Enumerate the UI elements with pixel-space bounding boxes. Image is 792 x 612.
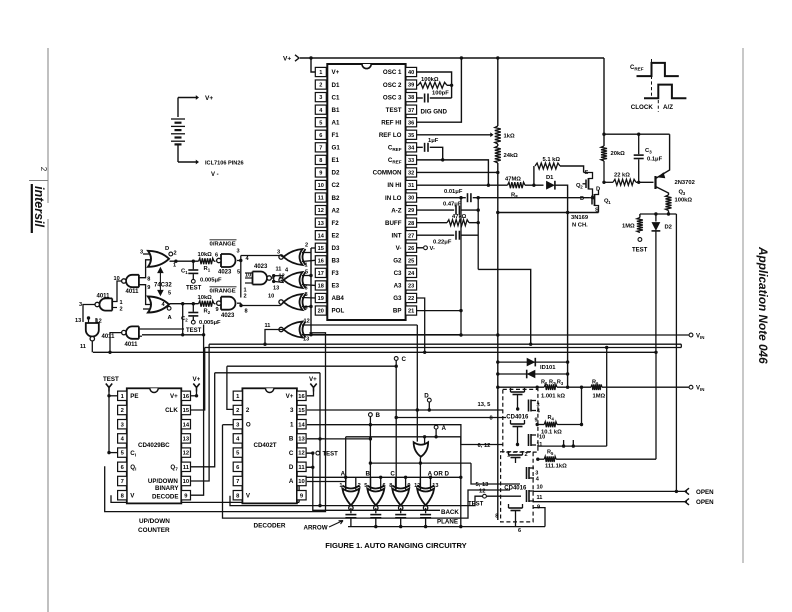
svg-text:CREF: CREF <box>630 65 644 72</box>
svg-text:6: 6 <box>319 133 322 139</box>
svg-text:19: 19 <box>318 296 324 302</box>
svg-text:29: 29 <box>408 208 414 214</box>
svg-text:11: 11 <box>537 442 543 448</box>
svg-text:E3: E3 <box>332 283 340 290</box>
svg-text:0/RANGE: 0/RANGE <box>210 289 236 295</box>
svg-text:10kΩ: 10kΩ <box>198 252 213 258</box>
svg-text:F3: F3 <box>332 270 340 277</box>
svg-text:R1: R1 <box>204 266 211 273</box>
svg-text:D: D <box>424 392 429 399</box>
svg-text:AB4: AB4 <box>332 295 345 302</box>
svg-text:5: 5 <box>319 120 322 126</box>
svg-text:16: 16 <box>183 394 190 400</box>
svg-text:13: 13 <box>432 483 438 489</box>
svg-text:0.1μF: 0.1μF <box>647 157 663 163</box>
svg-text:8: 8 <box>490 416 493 422</box>
svg-text:PLANE: PLANE <box>437 519 458 526</box>
svg-text:23: 23 <box>408 284 414 290</box>
svg-text:9: 9 <box>216 307 219 313</box>
svg-text:10: 10 <box>539 435 545 441</box>
svg-text:3: 3 <box>79 302 82 308</box>
svg-text:E1: E1 <box>332 157 340 164</box>
svg-text:BACK: BACK <box>441 509 459 516</box>
svg-text:5: 5 <box>364 483 367 489</box>
svg-text:2: 2 <box>246 407 250 414</box>
svg-text:1: 1 <box>507 453 510 459</box>
svg-text:39: 39 <box>408 83 414 89</box>
svg-text:12: 12 <box>183 451 189 457</box>
svg-text:D1: D1 <box>332 82 340 89</box>
svg-text:COUNTER: COUNTER <box>138 527 170 534</box>
svg-text:2: 2 <box>319 83 322 89</box>
svg-text:CD4016: CD4016 <box>504 485 527 491</box>
svg-text:0.01μF: 0.01μF <box>444 189 463 195</box>
svg-text:10: 10 <box>268 294 274 300</box>
svg-text:TEST: TEST <box>186 328 202 334</box>
svg-text:B: B <box>289 436 294 443</box>
svg-text:11: 11 <box>183 465 190 471</box>
svg-text:1kΩ: 1kΩ <box>504 134 515 140</box>
svg-text:D2: D2 <box>665 225 672 231</box>
svg-text:TEST: TEST <box>186 286 202 292</box>
svg-text:3: 3 <box>140 250 143 256</box>
svg-text:COMMON: COMMON <box>373 170 402 177</box>
svg-text:8: 8 <box>319 158 322 164</box>
svg-text:25: 25 <box>408 258 414 264</box>
svg-text:4011: 4011 <box>97 294 111 300</box>
svg-text:15: 15 <box>298 408 305 414</box>
svg-text:C: C <box>390 471 395 478</box>
svg-text:V-: V- <box>430 246 436 252</box>
svg-text:DECODE: DECODE <box>152 494 178 501</box>
svg-text:111.1kΩ: 111.1kΩ <box>545 464 567 470</box>
svg-text:12: 12 <box>298 451 304 457</box>
svg-text:3N169: 3N169 <box>571 215 589 221</box>
svg-text:9: 9 <box>535 418 538 424</box>
svg-text:V+: V+ <box>332 69 340 76</box>
svg-text:12: 12 <box>479 488 485 494</box>
svg-text:4011: 4011 <box>125 342 139 348</box>
svg-text:8: 8 <box>147 277 150 283</box>
svg-text:E2: E2 <box>332 232 340 239</box>
svg-text:12: 12 <box>318 208 324 214</box>
svg-text:15: 15 <box>318 246 324 252</box>
svg-text:0/RANGE: 0/RANGE <box>210 242 236 248</box>
svg-text:V+: V+ <box>286 393 294 400</box>
svg-text:2: 2 <box>236 408 239 414</box>
svg-text:15: 15 <box>183 408 190 414</box>
svg-text:2: 2 <box>305 243 308 249</box>
svg-text:5: 5 <box>305 270 308 276</box>
svg-text:G1: G1 <box>332 145 341 152</box>
svg-text:C3: C3 <box>394 270 402 277</box>
svg-text:8: 8 <box>245 309 248 315</box>
svg-text:INT: INT <box>392 232 402 239</box>
svg-text:11: 11 <box>265 323 271 329</box>
svg-text:14: 14 <box>183 422 190 428</box>
svg-text:10kΩ: 10kΩ <box>198 295 213 301</box>
svg-text:10: 10 <box>318 183 324 189</box>
svg-text:13: 13 <box>75 318 81 324</box>
svg-text:A: A <box>341 471 346 478</box>
svg-text:8: 8 <box>305 292 308 298</box>
svg-text:1: 1 <box>319 70 322 76</box>
svg-text:1: 1 <box>173 263 176 269</box>
svg-text:5, 13: 5, 13 <box>476 482 490 488</box>
svg-text:22 kΩ: 22 kΩ <box>614 173 630 179</box>
svg-text:100pF: 100pF <box>432 91 449 97</box>
svg-text:BP: BP <box>393 308 402 315</box>
svg-text:9: 9 <box>147 285 150 291</box>
svg-text:DIG GND: DIG GND <box>421 108 448 115</box>
svg-text:13: 13 <box>273 286 279 292</box>
svg-text:OSC 2: OSC 2 <box>383 82 402 89</box>
svg-text:35: 35 <box>408 133 414 139</box>
svg-text:OPEN: OPEN <box>696 489 714 496</box>
svg-text:14: 14 <box>298 422 305 428</box>
svg-text:3: 3 <box>237 249 240 255</box>
svg-text:17: 17 <box>318 271 324 277</box>
svg-text:F1: F1 <box>332 132 340 139</box>
svg-text:4023: 4023 <box>218 270 232 276</box>
svg-text:A: A <box>442 425 447 432</box>
svg-text:CD4016: CD4016 <box>506 414 529 420</box>
svg-text:1μF: 1μF <box>428 138 439 144</box>
svg-text:IN LO: IN LO <box>385 195 402 202</box>
svg-text:11: 11 <box>298 465 305 471</box>
svg-text:D: D <box>580 196 584 202</box>
svg-text:100kΩ: 100kΩ <box>675 198 693 204</box>
svg-text:A3: A3 <box>394 283 402 290</box>
svg-text:R2: R2 <box>204 309 211 316</box>
svg-text:A-Z: A-Z <box>391 207 402 214</box>
svg-text:3: 3 <box>319 95 322 101</box>
svg-text:12: 12 <box>414 483 420 489</box>
svg-text:A OR D: A OR D <box>428 471 450 478</box>
svg-text:2: 2 <box>244 294 247 300</box>
svg-text:C2: C2 <box>332 182 340 189</box>
svg-text:6, 12: 6, 12 <box>478 443 491 449</box>
svg-text:V+: V+ <box>205 95 213 102</box>
svg-text:37: 37 <box>408 108 414 114</box>
svg-text:1MΩ: 1MΩ <box>593 393 606 399</box>
svg-text:V+: V+ <box>170 393 178 400</box>
svg-text:11: 11 <box>80 344 86 350</box>
svg-text:B3: B3 <box>332 258 340 265</box>
svg-text:4011: 4011 <box>126 289 140 295</box>
svg-text:3: 3 <box>277 250 280 256</box>
svg-text:6: 6 <box>305 286 308 292</box>
svg-text:18: 18 <box>318 284 324 290</box>
svg-text:ARROW: ARROW <box>304 525 328 532</box>
svg-text:D3: D3 <box>332 245 340 252</box>
svg-text:10: 10 <box>537 485 543 491</box>
svg-text:20kΩ: 20kΩ <box>611 151 626 157</box>
svg-text:V+: V+ <box>193 376 201 383</box>
svg-text:TEST: TEST <box>323 452 339 458</box>
svg-text:CLK: CLK <box>165 407 178 414</box>
svg-text:C: C <box>402 356 407 363</box>
svg-text:CD402T: CD402T <box>254 442 277 449</box>
svg-text:A: A <box>289 478 294 485</box>
svg-text:10: 10 <box>183 479 189 485</box>
svg-text:21: 21 <box>408 309 414 315</box>
svg-text:30: 30 <box>408 196 414 202</box>
svg-text:6: 6 <box>518 528 521 534</box>
svg-text:O: O <box>246 421 251 428</box>
svg-text:11: 11 <box>537 495 543 501</box>
svg-text:9: 9 <box>305 306 308 312</box>
svg-text:8: 8 <box>389 483 392 489</box>
svg-text:B2: B2 <box>332 195 340 202</box>
svg-text:100kΩ: 100kΩ <box>421 77 439 83</box>
svg-text:TEST: TEST <box>386 107 402 114</box>
svg-text:6: 6 <box>383 483 386 489</box>
svg-text:CD4029BC: CD4029BC <box>138 442 170 449</box>
svg-text:B: B <box>366 471 371 478</box>
svg-text:9: 9 <box>319 171 322 177</box>
svg-text:7: 7 <box>319 145 322 151</box>
svg-text:0.005μF: 0.005μF <box>200 278 222 284</box>
svg-text:10: 10 <box>298 479 304 485</box>
svg-text:UP/DOWN: UP/DOWN <box>139 518 170 525</box>
svg-text:DECODER: DECODER <box>254 523 286 530</box>
svg-text:2: 2 <box>121 408 124 414</box>
svg-text:16: 16 <box>298 394 305 400</box>
svg-text:3: 3 <box>290 407 294 414</box>
svg-text:20: 20 <box>318 309 324 315</box>
svg-text:D: D <box>596 187 600 193</box>
svg-text:24: 24 <box>408 271 415 277</box>
svg-text:74C32: 74C32 <box>154 283 172 289</box>
svg-text:0.22μF: 0.22μF <box>433 240 452 246</box>
svg-text:32: 32 <box>408 171 414 177</box>
svg-text:D: D <box>165 246 169 252</box>
svg-text:F2: F2 <box>332 220 340 227</box>
svg-text:1: 1 <box>339 483 342 489</box>
svg-text:28: 28 <box>408 221 414 227</box>
svg-text:8: 8 <box>495 514 498 520</box>
svg-text:V+: V+ <box>283 56 291 63</box>
svg-text:0.47μF: 0.47μF <box>443 202 462 208</box>
svg-text:2N3702: 2N3702 <box>675 180 695 186</box>
svg-text:G3: G3 <box>393 295 402 302</box>
svg-text:6: 6 <box>215 253 218 259</box>
svg-text:VIN: VIN <box>696 386 704 393</box>
svg-text:5.1 kΩ: 5.1 kΩ <box>543 157 561 163</box>
svg-text:47kΩ: 47kΩ <box>452 214 467 220</box>
svg-text:2: 2 <box>358 483 361 489</box>
svg-text:47MΩ: 47MΩ <box>505 177 521 183</box>
svg-text:N CH.: N CH. <box>572 223 588 229</box>
svg-text:24kΩ: 24kΩ <box>504 153 519 159</box>
svg-text:C: C <box>289 450 294 457</box>
svg-text:VIN: VIN <box>696 334 704 341</box>
svg-text:2: 2 <box>174 251 177 257</box>
svg-text:7: 7 <box>236 479 239 485</box>
svg-text:BUFF: BUFF <box>385 220 402 227</box>
svg-text:A/Z: A/Z <box>663 104 673 111</box>
svg-text:B: B <box>376 412 381 419</box>
svg-text:0.005μF: 0.005μF <box>199 320 221 326</box>
svg-text:C3: C3 <box>645 148 652 155</box>
svg-text:4011: 4011 <box>102 334 116 340</box>
svg-text:TEST: TEST <box>468 502 484 508</box>
svg-text:2: 2 <box>120 307 123 313</box>
svg-text:D1: D1 <box>546 175 554 181</box>
svg-text:38: 38 <box>408 95 414 101</box>
svg-text:1: 1 <box>120 300 123 306</box>
svg-text:FIGURE 1. AUTO RANGING CIRCUI: FIGURE 1. AUTO RANGING CIRCUITRY <box>325 541 466 550</box>
svg-text:TEST: TEST <box>632 248 648 254</box>
svg-text:R6: R6 <box>592 380 599 387</box>
svg-text:1MΩ: 1MΩ <box>622 224 635 230</box>
svg-text:13, 5: 13, 5 <box>478 402 492 408</box>
svg-text:OSC 1: OSC 1 <box>383 69 402 76</box>
svg-text:26: 26 <box>408 246 414 252</box>
svg-text:ID101: ID101 <box>540 365 556 371</box>
svg-text:16: 16 <box>318 258 324 264</box>
svg-text:OPEN: OPEN <box>696 499 714 506</box>
svg-text:IN HI: IN HI <box>387 182 401 189</box>
svg-text:5: 5 <box>237 270 240 276</box>
svg-text:9: 9 <box>407 483 410 489</box>
svg-text:R5: R5 <box>547 450 554 457</box>
svg-text:36: 36 <box>408 120 414 126</box>
svg-text:A1: A1 <box>332 119 340 126</box>
svg-text:12: 12 <box>304 319 310 325</box>
svg-text:CLOCK: CLOCK <box>631 104 654 111</box>
svg-text:2: 2 <box>39 167 48 172</box>
svg-text:4023: 4023 <box>254 264 268 270</box>
svg-text:34: 34 <box>408 145 415 151</box>
svg-text:5: 5 <box>168 291 171 297</box>
svg-text:C1: C1 <box>332 94 340 101</box>
svg-text:4023: 4023 <box>221 313 235 319</box>
svg-text:V+: V+ <box>309 376 317 383</box>
svg-text:13: 13 <box>183 437 190 443</box>
svg-text:D2: D2 <box>332 170 340 177</box>
svg-text:Application Note 046: Application Note 046 <box>756 246 770 364</box>
svg-text:9: 9 <box>537 505 540 511</box>
svg-text:1: 1 <box>290 421 294 428</box>
svg-text:14: 14 <box>318 233 325 239</box>
svg-text:V -: V - <box>211 172 219 178</box>
svg-text:D: D <box>289 464 294 471</box>
svg-text:33: 33 <box>408 158 414 164</box>
svg-text:A2: A2 <box>332 207 340 214</box>
svg-text:13: 13 <box>298 437 305 443</box>
svg-text:27: 27 <box>408 233 414 239</box>
svg-text:1: 1 <box>305 263 308 269</box>
svg-text:BINARY: BINARY <box>155 485 179 492</box>
svg-text:11: 11 <box>276 267 282 273</box>
svg-text:V-: V- <box>396 245 402 252</box>
svg-text:13: 13 <box>303 337 309 343</box>
svg-text:C1: C1 <box>181 269 188 276</box>
svg-text:PE: PE <box>130 393 138 400</box>
svg-text:11: 11 <box>318 196 324 202</box>
svg-text:R4: R4 <box>548 415 555 422</box>
svg-text:31: 31 <box>408 183 414 189</box>
svg-text:ICL7106 PIN26: ICL7106 PIN26 <box>205 161 244 167</box>
svg-text:10.1 kΩ: 10.1 kΩ <box>541 429 562 435</box>
svg-text:13: 13 <box>318 221 324 227</box>
svg-text:TEST: TEST <box>103 376 119 383</box>
svg-text:OSC 3: OSC 3 <box>383 94 402 101</box>
svg-text:REF HI: REF HI <box>381 119 402 126</box>
svg-text:G2: G2 <box>393 258 402 265</box>
svg-text:22: 22 <box>408 296 414 302</box>
svg-text:B1: B1 <box>332 107 340 114</box>
svg-text:7: 7 <box>121 479 124 485</box>
svg-text:REF LO: REF LO <box>379 132 402 139</box>
svg-text:40: 40 <box>408 70 414 76</box>
svg-text:intersil: intersil <box>32 186 46 228</box>
svg-text:2: 2 <box>525 452 528 458</box>
svg-text:POL: POL <box>332 308 345 315</box>
svg-text:1.001 kΩ: 1.001 kΩ <box>541 393 565 399</box>
